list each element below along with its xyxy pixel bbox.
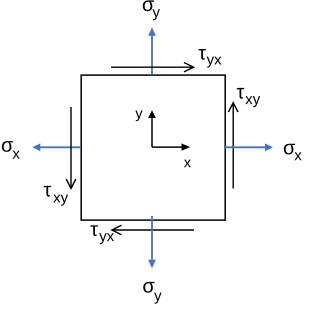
label tau-xy bottom left xyxy=(44,186,68,206)
arrow tau-yx top (black, right) xyxy=(111,63,194,72)
label tau-xy right xyxy=(237,88,260,107)
label tau-yx bottom xyxy=(90,225,114,244)
label sigma-x left xyxy=(2,141,20,158)
arrow sigma-y top (blue, up) xyxy=(148,28,156,76)
label sigma-y top xyxy=(143,0,160,20)
arrow tau-yx bottom (black, left) xyxy=(112,225,194,234)
arrow sigma-y bottom (blue, down) xyxy=(148,216,156,268)
stress element square xyxy=(81,75,225,220)
arrow tau-xy right (black, up) xyxy=(228,103,238,189)
arrow sigma-x right (blue, right) xyxy=(225,143,273,151)
arrow sigma-x left (blue, left) xyxy=(32,143,81,151)
label sigma-y bottom xyxy=(143,282,161,304)
label tau-yx top right xyxy=(198,49,221,68)
arrow tau-xy left (black, down) xyxy=(66,107,76,188)
label x axis xyxy=(184,160,191,168)
axis y (center, up) xyxy=(148,110,156,147)
label y axis xyxy=(135,111,142,122)
label sigma-x right xyxy=(284,144,302,160)
axis x (center, right) xyxy=(152,143,190,150)
